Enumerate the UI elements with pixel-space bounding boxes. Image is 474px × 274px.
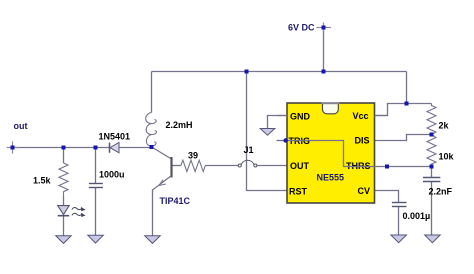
junction node top rail / 6V drop [322,70,326,74]
svg-text:1N5401: 1N5401 [99,131,131,141]
ground (2.2nF) [425,235,441,243]
wire 1.5k to LED [63,196,65,206]
junction node top rail / RST drop [245,70,249,74]
wire GND pin to ground [268,116,288,129]
resistor 2k [427,104,436,135]
junction TRIG dot [283,138,287,142]
ground (emitter) [145,236,161,244]
wire 10k bottom to 2.2nF cap [431,167,433,178]
diode 1N5401 [110,143,120,153]
wire RST drop from top rail [247,72,288,191]
svg-text:TIP41C: TIP41C [160,196,191,206]
capacitor 1000u [89,184,103,188]
svg-text:GND: GND [290,111,311,121]
ground (IC GND pin) [260,129,275,136]
pin stub TRIG [277,140,288,142]
ground (0.001u) [391,235,407,243]
wire out rail [13,147,152,149]
junction node 10k bottom / 2.2nF [430,165,434,169]
svg-text:39: 39 [188,150,198,160]
jumper J1 [238,160,257,167]
capacitor 2.2nF [423,178,440,182]
resistor 1.5k [59,163,68,196]
wire right drop to Vcc node [407,72,432,104]
svg-text:CV: CV [358,186,371,196]
wire Vcc pin link [375,104,407,116]
svg-text:NE555: NE555 [317,172,345,182]
wire jumper to 39 resistor to base [173,165,239,167]
svg-text:DIS: DIS [355,135,370,145]
junction node THRS [385,165,389,169]
terminal out [7,141,19,153]
wire 1.5k branch top [63,148,65,164]
LED D2 [58,206,86,217]
IC U1 NE555 body [287,103,375,203]
terminal 6V DC [317,23,332,32]
junction node 2k/10k/DIS [430,133,434,137]
wire 1000u to ground [95,188,97,236]
pin stub Vcc [375,115,388,117]
wire 1000u branch top [95,148,97,184]
inductor 2.2mH [146,113,157,147]
capacitor 0.001u [392,203,407,207]
wire inductor drop from top rail [151,72,153,113]
svg-text:6V DC: 6V DC [288,23,315,33]
svg-text:2.2nF: 2.2nF [429,187,453,197]
pin stub GND [277,115,287,117]
svg-text:2.2mH: 2.2mH [166,120,193,130]
wire LED to ground [63,216,65,235]
ground (1000u branch) [88,235,104,243]
wire OUT pin to jumper [257,165,287,167]
wire CV pin to 0.001u cap [375,191,399,203]
svg-text:RST: RST [289,186,308,196]
svg-text:Vcc: Vcc [353,111,369,121]
transistor TIP41C [153,148,172,191]
resistor 10k [427,135,436,167]
wire emitter to ground [152,190,154,236]
junction node at 1.5k branch [62,146,66,150]
wire 0.001u cap to ground [398,207,400,236]
svg-text:1.5k: 1.5k [33,176,52,186]
wire DIS pin link [375,135,432,141]
resistor 39 [181,160,206,171]
svg-text:J1: J1 [244,145,254,155]
wire 2.2nF cap to ground [431,182,433,236]
wire 6V drop [323,29,325,72]
ground (LED branch) [56,236,71,244]
svg-text:0.001µ: 0.001µ [403,211,431,221]
junction node at inductor bottom [150,145,154,149]
svg-text:OUT: OUT [290,161,310,171]
svg-text:10k: 10k [439,151,455,161]
wire top rail [152,71,407,73]
wire THRS row (TRIG internal tie to THRS and 10k bottom) [285,141,431,167]
svg-text:1000u: 1000u [99,170,125,180]
junction node at 1000u branch [94,146,98,150]
svg-text:out: out [14,121,28,131]
junction node Vcc corner [405,102,409,106]
svg-text:2k: 2k [439,120,450,130]
